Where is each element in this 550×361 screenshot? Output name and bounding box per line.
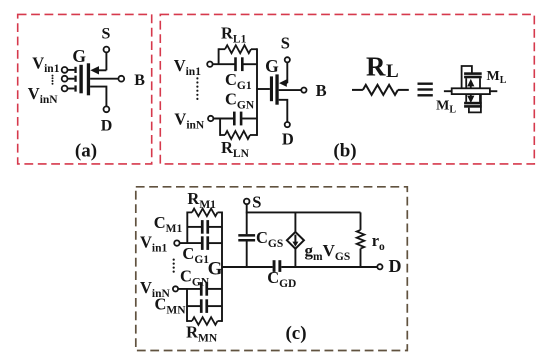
wire left vertical of C_GN/R_LN net <box>219 119 221 136</box>
wire V_inN to C_GN (c) <box>178 288 200 290</box>
svg-text:D: D <box>101 117 113 134</box>
svg-text:G: G <box>72 46 86 66</box>
wire V_in1 to C_G1 <box>213 63 235 65</box>
transistor M_L top channel bar <box>464 76 482 79</box>
wire left vertical of R_L1/C_G1 net <box>218 48 220 64</box>
svg-text:ML: ML <box>436 99 456 116</box>
svg-text:G: G <box>208 259 223 280</box>
equivalence sign <box>418 82 433 84</box>
wire to C_M1 <box>187 226 201 228</box>
wire to C_MN <box>187 305 200 307</box>
terminal S (c) <box>244 199 250 205</box>
transistor M_L top S/D leads <box>465 78 467 88</box>
resistor R_MN <box>187 320 192 322</box>
svg-text:CG1: CG1 <box>182 244 209 266</box>
transistor M_L top gate bar <box>464 72 482 75</box>
drain lead + D terminal (a) <box>90 87 106 107</box>
input V_inN terminal (b) <box>208 116 213 121</box>
transistor M_L top bulk arrow <box>470 84 472 88</box>
wire S down to C_GS <box>246 204 248 234</box>
capacitor C_GS <box>238 234 255 237</box>
wire gate bus vertical (b) <box>256 48 258 136</box>
wire top rail (c) <box>246 211 361 213</box>
capacitor C_M1 <box>201 220 204 234</box>
wire right lead of M_L pair <box>490 90 497 92</box>
channel bar (b) <box>275 74 278 104</box>
wire C_G1 to gate node <box>243 63 257 65</box>
capacitor C_GD <box>273 260 276 272</box>
svg-text:(c): (c) <box>285 323 306 344</box>
svg-text:ML: ML <box>487 69 507 86</box>
wire C_M1 to G bus <box>209 226 222 228</box>
wire left lead of M_L pair <box>444 90 452 92</box>
panel (a) dashed border <box>18 14 152 164</box>
input terminal 1 (a) <box>62 67 68 73</box>
panel (c) dashed border <box>136 187 408 351</box>
svg-text:ro: ro <box>372 231 385 253</box>
svg-text:Vin1: Vin1 <box>174 56 202 78</box>
capacitor C_MN <box>200 299 203 313</box>
svg-text:D: D <box>282 130 294 149</box>
transistor M_L bottom bulk arrow <box>470 94 472 98</box>
channel bar (a) <box>87 63 90 95</box>
current source g_mV_GS diamond <box>287 232 304 249</box>
wire V_inN to C_GN <box>213 118 233 120</box>
svg-text:CGN: CGN <box>225 90 255 112</box>
svg-text:gmVGS: gmVGS <box>305 241 351 263</box>
bulk lead + B terminal (a) <box>90 78 118 80</box>
wire C_GD to D <box>281 266 377 268</box>
bulk lead + B terminal (b) <box>279 89 301 91</box>
wire C_G1 to G bus (c) <box>209 242 222 244</box>
wire left vertical top net (c) <box>186 212 188 244</box>
ellipsis dots (a) <box>52 75 54 77</box>
input terminal 2 (a) <box>62 76 68 82</box>
ellipsis dots (c) <box>173 259 175 261</box>
svg-text:Vin1: Vin1 <box>32 53 60 75</box>
svg-text:S: S <box>102 26 111 43</box>
floating gate bar (a) <box>79 65 82 94</box>
wire left vertical bottom net (c) <box>186 289 188 322</box>
input V_inN terminal (c) <box>173 286 178 291</box>
svg-text:CGS: CGS <box>256 228 283 250</box>
svg-text:RMN: RMN <box>186 323 218 345</box>
svg-text:CGN: CGN <box>180 267 210 289</box>
resistor R_L1 <box>219 48 225 50</box>
resistor R_L <box>352 89 363 91</box>
drain lead + D terminal (b) <box>279 100 288 122</box>
wire current source stem bottom <box>294 249 296 268</box>
capacitor C_GN (c) <box>200 282 203 296</box>
svg-text:VinN: VinN <box>174 110 205 132</box>
resistor r_o <box>360 212 362 230</box>
wire C_GN to gate node <box>242 118 257 120</box>
svg-text:Vin1: Vin1 <box>140 233 168 255</box>
svg-text:S: S <box>281 34 290 53</box>
transistor M_L bottom gate loop <box>469 94 481 112</box>
svg-text:CMN: CMN <box>155 295 187 317</box>
ellipsis dots (b) <box>196 77 198 79</box>
input terminal 3 (a) <box>62 86 68 92</box>
svg-text:B: B <box>134 72 145 89</box>
wire C_GN to G bus (c) <box>208 288 222 290</box>
capacitor C_G1 <box>234 57 237 71</box>
svg-text:(a): (a) <box>75 141 97 162</box>
svg-text:RLN: RLN <box>221 138 250 160</box>
panel (b) dashed border <box>160 14 534 164</box>
wire current source stem top <box>294 212 296 232</box>
svg-text:D: D <box>389 256 402 276</box>
wire body rails of M_L pair <box>452 88 490 94</box>
resistor R_LN <box>220 134 225 136</box>
svg-text:CGD: CGD <box>267 268 296 290</box>
svg-text:G: G <box>265 56 279 76</box>
wire G bus vertical (c) <box>221 212 223 322</box>
source lead with arrow + S terminal (b) <box>285 82 287 84</box>
terminal D (c) <box>377 264 382 269</box>
svg-text:B: B <box>316 81 327 100</box>
svg-text:VinN: VinN <box>28 84 59 106</box>
source lead with arrow + S terminal (a) <box>98 69 107 71</box>
svg-text:(b): (b) <box>333 141 356 162</box>
input V_in1 terminal (c) <box>174 240 179 245</box>
svg-text:S: S <box>252 192 261 211</box>
wire C_MN to G bus <box>208 305 222 307</box>
wire V_in1 to C_G1 (c) <box>180 242 201 244</box>
svg-text:RL1: RL1 <box>221 24 247 46</box>
gate bar (b) <box>270 76 273 101</box>
transistor M_L top gate loop <box>462 66 472 88</box>
wire gate lead (b) <box>256 88 270 90</box>
svg-text:RL: RL <box>366 52 399 83</box>
svg-text:RM1: RM1 <box>187 189 216 211</box>
transistor M_L bottom channel bar <box>464 102 482 105</box>
transistor M_L bottom gate bar <box>464 105 482 108</box>
wire C_GS to G line <box>246 242 248 268</box>
input V_in1 terminal (b) <box>207 61 212 66</box>
resistor R_M1 <box>187 211 192 213</box>
capacitor C_G1 (c) <box>201 236 204 250</box>
node G to C_GD wire <box>222 266 273 268</box>
svg-text:CM1: CM1 <box>154 213 183 235</box>
transistor M_L bottom S/D leads <box>465 94 467 102</box>
capacitor C_GN <box>233 112 236 126</box>
